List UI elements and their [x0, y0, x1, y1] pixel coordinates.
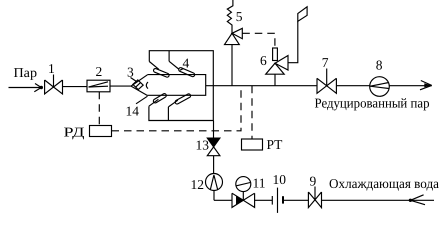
check valve 13: [207, 138, 220, 156]
wire: dashed impulse tap to РД riser: [251, 86, 253, 139]
svg-text:7: 7: [322, 55, 329, 70]
valve 7 (outlet gate valve): [317, 69, 336, 94]
wire: pipe valve13 to restrictor 12: [213, 156, 215, 174]
water channel partition bottom: [167, 107, 169, 121]
svg-text:5: 5: [236, 9, 243, 24]
control valve 11: [232, 177, 255, 208]
wire: reduced steam header: [206, 81, 432, 90]
svg-text:Пар: Пар: [14, 65, 38, 80]
label 14 with leader: [126, 96, 148, 118]
valve 1 (inlet gate valve): [45, 75, 63, 95]
svg-text:12: 12: [191, 177, 205, 192]
svg-text:8: 8: [376, 58, 383, 73]
wire: dashed impulse line РД to reduced-steam header: [112, 86, 242, 131]
orifice meter 10: [272, 188, 283, 213]
valve 9 (cooling water gate valve): [308, 187, 321, 208]
label 3 with leader: [127, 65, 137, 82]
wire: pipe valve1 to throttle 2: [63, 86, 88, 88]
svg-text:3: 3: [127, 65, 134, 80]
wire: dashed control line valve5 to valve6 actuator: [242, 33, 275, 48]
svg-text:2: 2: [96, 64, 103, 79]
pressure regulator РД box: [90, 126, 112, 137]
svg-text:6: 6: [260, 53, 267, 68]
svg-text:14: 14: [126, 104, 140, 119]
spray nozzle 4 top-left: [153, 68, 170, 78]
svg-text:РД: РД: [64, 125, 85, 140]
safety valve 5: [225, 0, 243, 45]
water channel partition top: [168, 51, 170, 62]
svg-text:4: 4: [183, 56, 190, 71]
water channel guide diagonal top-left: [149, 62, 159, 70]
svg-text:РТ: РТ: [267, 137, 284, 152]
wire: cooling water line: [214, 191, 434, 205]
svg-text:1: 1: [48, 61, 55, 76]
svg-text:10: 10: [273, 172, 287, 187]
svg-text:11: 11: [253, 176, 266, 191]
water channel guide diagonal bottom-left: [149, 99, 159, 106]
wire: pipe throttle 2 to nozzle cone: [110, 85, 131, 87]
vent to atmosphere flag: [288, 7, 307, 63]
mixing tube 14: [147, 75, 205, 96]
spray nozzle bottom-left: [153, 93, 167, 104]
spray nozzle bottom-right: [175, 93, 192, 104]
svg-text:Редуцированный пар: Редуцированный пар: [315, 96, 430, 111]
desuperheater casing: [149, 51, 213, 121]
wire: dashed impulse line from pipe to regulator РД: [98, 92, 100, 126]
throttle device 2: [87, 80, 110, 92]
wire: steam inlet line with arrow: [9, 84, 44, 92]
water channel guide diagonal top-mid: [169, 61, 179, 69]
wire: desuperheater drain to check valve 13: [213, 121, 215, 139]
svg-text:13: 13: [196, 138, 210, 153]
temperature regulator РТ box: [242, 139, 263, 150]
nozzle 3 inlet cone: [131, 75, 148, 96]
water channel guide diagonal bottom-mid: [168, 100, 178, 107]
spray nozzle 4 top-right: [178, 67, 195, 77]
svg-text:9: 9: [310, 174, 317, 189]
wire: riser to safety valve 5: [231, 45, 233, 86]
label 4 with leader: [180, 56, 190, 71]
water restrictor 12: [206, 174, 223, 191]
flow restrictor 8: [370, 77, 390, 97]
start-up vent valve 6: [266, 48, 288, 86]
svg-text:Охлаждающая вода: Охлаждающая вода: [329, 176, 439, 191]
